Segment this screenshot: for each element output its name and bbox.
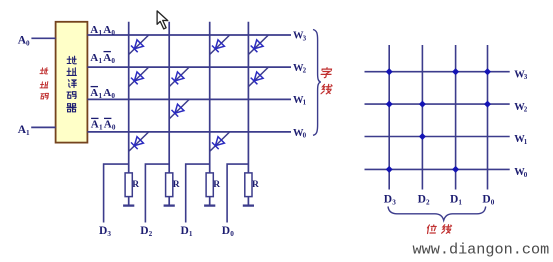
ground bar under R2 xyxy=(164,204,175,206)
resistor R2 xyxy=(166,173,173,205)
svg-text:2: 2 xyxy=(524,106,528,114)
svg-text:D: D xyxy=(222,225,230,237)
svg-text:0: 0 xyxy=(230,230,234,238)
diode row4 col3 (W0-D1) xyxy=(210,132,230,152)
brace for word lines (字线 group) xyxy=(313,30,321,136)
svg-text:3: 3 xyxy=(107,230,111,238)
svg-text:0: 0 xyxy=(111,29,115,37)
junction dot W2-D2 xyxy=(419,101,426,108)
junction dot W0-D3 xyxy=(386,166,393,173)
svg-text:A: A xyxy=(91,119,99,131)
svg-text:D: D xyxy=(450,194,458,206)
svg-text:1: 1 xyxy=(26,129,30,137)
diode row1 col3 (W3-D1) xyxy=(210,35,230,55)
svg-text:2: 2 xyxy=(303,67,307,75)
svg-text:0: 0 xyxy=(112,124,116,132)
input A0 wire xyxy=(31,37,55,39)
resistor R1 xyxy=(125,173,132,205)
wire branch to output D3 xyxy=(104,164,129,222)
net label A1-bar A0 (word line W1) xyxy=(91,86,98,88)
right grid bit line D3 xyxy=(388,45,390,190)
svg-text:R: R xyxy=(252,180,259,190)
svg-text:3: 3 xyxy=(303,35,307,43)
decoder box text: 地址译码器 (drawn strokes) xyxy=(67,56,76,112)
svg-text:A: A xyxy=(103,52,111,64)
svg-text:D: D xyxy=(384,194,392,206)
right grid bit line D0 xyxy=(487,45,489,190)
svg-text:www.diangon.com: www.diangon.com xyxy=(413,241,550,259)
svg-text:A: A xyxy=(103,24,111,36)
right grid word line W0 xyxy=(365,168,510,170)
ground bar under R3 xyxy=(204,204,215,206)
bit line column D1 (net) xyxy=(209,22,211,173)
junction dot W3-D3 xyxy=(386,68,393,75)
svg-text:R: R xyxy=(132,180,139,190)
diode row1 col1 (W3-D3) xyxy=(129,35,149,55)
net label A1-bar A0-bar (word line W0) xyxy=(91,117,98,119)
ground bar under R4 xyxy=(243,204,254,206)
bit line column D0 (net) xyxy=(247,22,249,173)
svg-text:D: D xyxy=(140,225,148,237)
junction dot W2-D3 xyxy=(386,101,393,108)
wire branch to output D1 xyxy=(186,164,210,222)
svg-text:3: 3 xyxy=(392,199,396,207)
svg-text:1: 1 xyxy=(189,230,193,238)
junction dot W0-D1 xyxy=(452,166,459,173)
svg-text:1: 1 xyxy=(458,199,462,207)
junction dot W1-D2 xyxy=(419,133,426,140)
svg-text:0: 0 xyxy=(491,199,495,207)
red annotation: 地址码 (address code), drawn strokes xyxy=(40,68,49,99)
svg-text:A: A xyxy=(90,24,98,36)
svg-text:3: 3 xyxy=(524,73,528,81)
right grid word line W2 xyxy=(365,103,510,105)
right grid bit line D1 xyxy=(455,45,457,190)
svg-text:1: 1 xyxy=(99,29,103,37)
right grid word line W1 xyxy=(365,136,510,138)
word line W3 (net) xyxy=(87,34,291,36)
diode row3 col2 (W1-D2) xyxy=(169,99,189,119)
svg-text:1: 1 xyxy=(303,99,307,107)
svg-text:R: R xyxy=(213,180,220,190)
input A1 wire xyxy=(31,126,55,128)
wire branch to output D2 xyxy=(145,164,169,222)
address decoder block U1 xyxy=(56,22,88,143)
svg-text:0: 0 xyxy=(303,132,307,140)
svg-text:0: 0 xyxy=(26,39,30,47)
svg-text:A: A xyxy=(90,87,98,99)
word line W2 (net) xyxy=(87,66,291,68)
svg-text:A: A xyxy=(90,52,98,64)
diode row1 col4 (W3-D0) xyxy=(248,35,268,55)
svg-text:A: A xyxy=(104,119,112,131)
junction dot W3-D1 xyxy=(452,68,459,75)
svg-text:0: 0 xyxy=(111,57,115,65)
svg-text:1: 1 xyxy=(99,92,103,100)
junction dot W3-D0 xyxy=(484,68,491,75)
word line W0 (net) xyxy=(87,131,291,133)
svg-text:D: D xyxy=(181,225,189,237)
ground bar under R1 xyxy=(123,204,134,206)
diode row2 col2 (W2-D2) xyxy=(169,67,189,87)
junction dot W2-D0 xyxy=(484,101,491,108)
diode row4 col1 (W0-D3) xyxy=(129,132,149,152)
svg-text:1: 1 xyxy=(99,124,103,132)
red annotation: 字线 (word lines), drawn strokes xyxy=(321,68,333,94)
svg-text:2: 2 xyxy=(426,199,430,207)
diode row2 col1 (W2-D3) xyxy=(129,67,149,87)
svg-text:R: R xyxy=(173,180,180,190)
red annotation: 位线 (bit lines), drawn strokes xyxy=(427,225,452,234)
mouse cursor xyxy=(157,11,168,29)
bit line column D3 (net) xyxy=(128,22,130,173)
svg-text:D: D xyxy=(418,194,426,206)
svg-text:D: D xyxy=(482,194,490,206)
svg-text:2: 2 xyxy=(149,230,153,238)
diode row2 col4 (W2-D0) xyxy=(248,67,268,87)
right grid bit line D2 xyxy=(421,45,423,190)
svg-text:1: 1 xyxy=(524,138,528,146)
right grid word line W3 xyxy=(365,71,510,73)
svg-text:0: 0 xyxy=(524,171,528,179)
brace for bit lines (位线 group) xyxy=(388,207,486,221)
word line W1 (net) xyxy=(87,98,291,100)
svg-text:A: A xyxy=(103,87,111,99)
bit line column D2 (net) xyxy=(168,22,170,173)
svg-text:0: 0 xyxy=(111,92,115,100)
resistor R4 xyxy=(245,173,252,205)
resistor R3 xyxy=(206,173,213,205)
svg-text:D: D xyxy=(99,225,107,237)
svg-text:1: 1 xyxy=(99,57,103,65)
wire branch to output D0 xyxy=(227,164,248,222)
